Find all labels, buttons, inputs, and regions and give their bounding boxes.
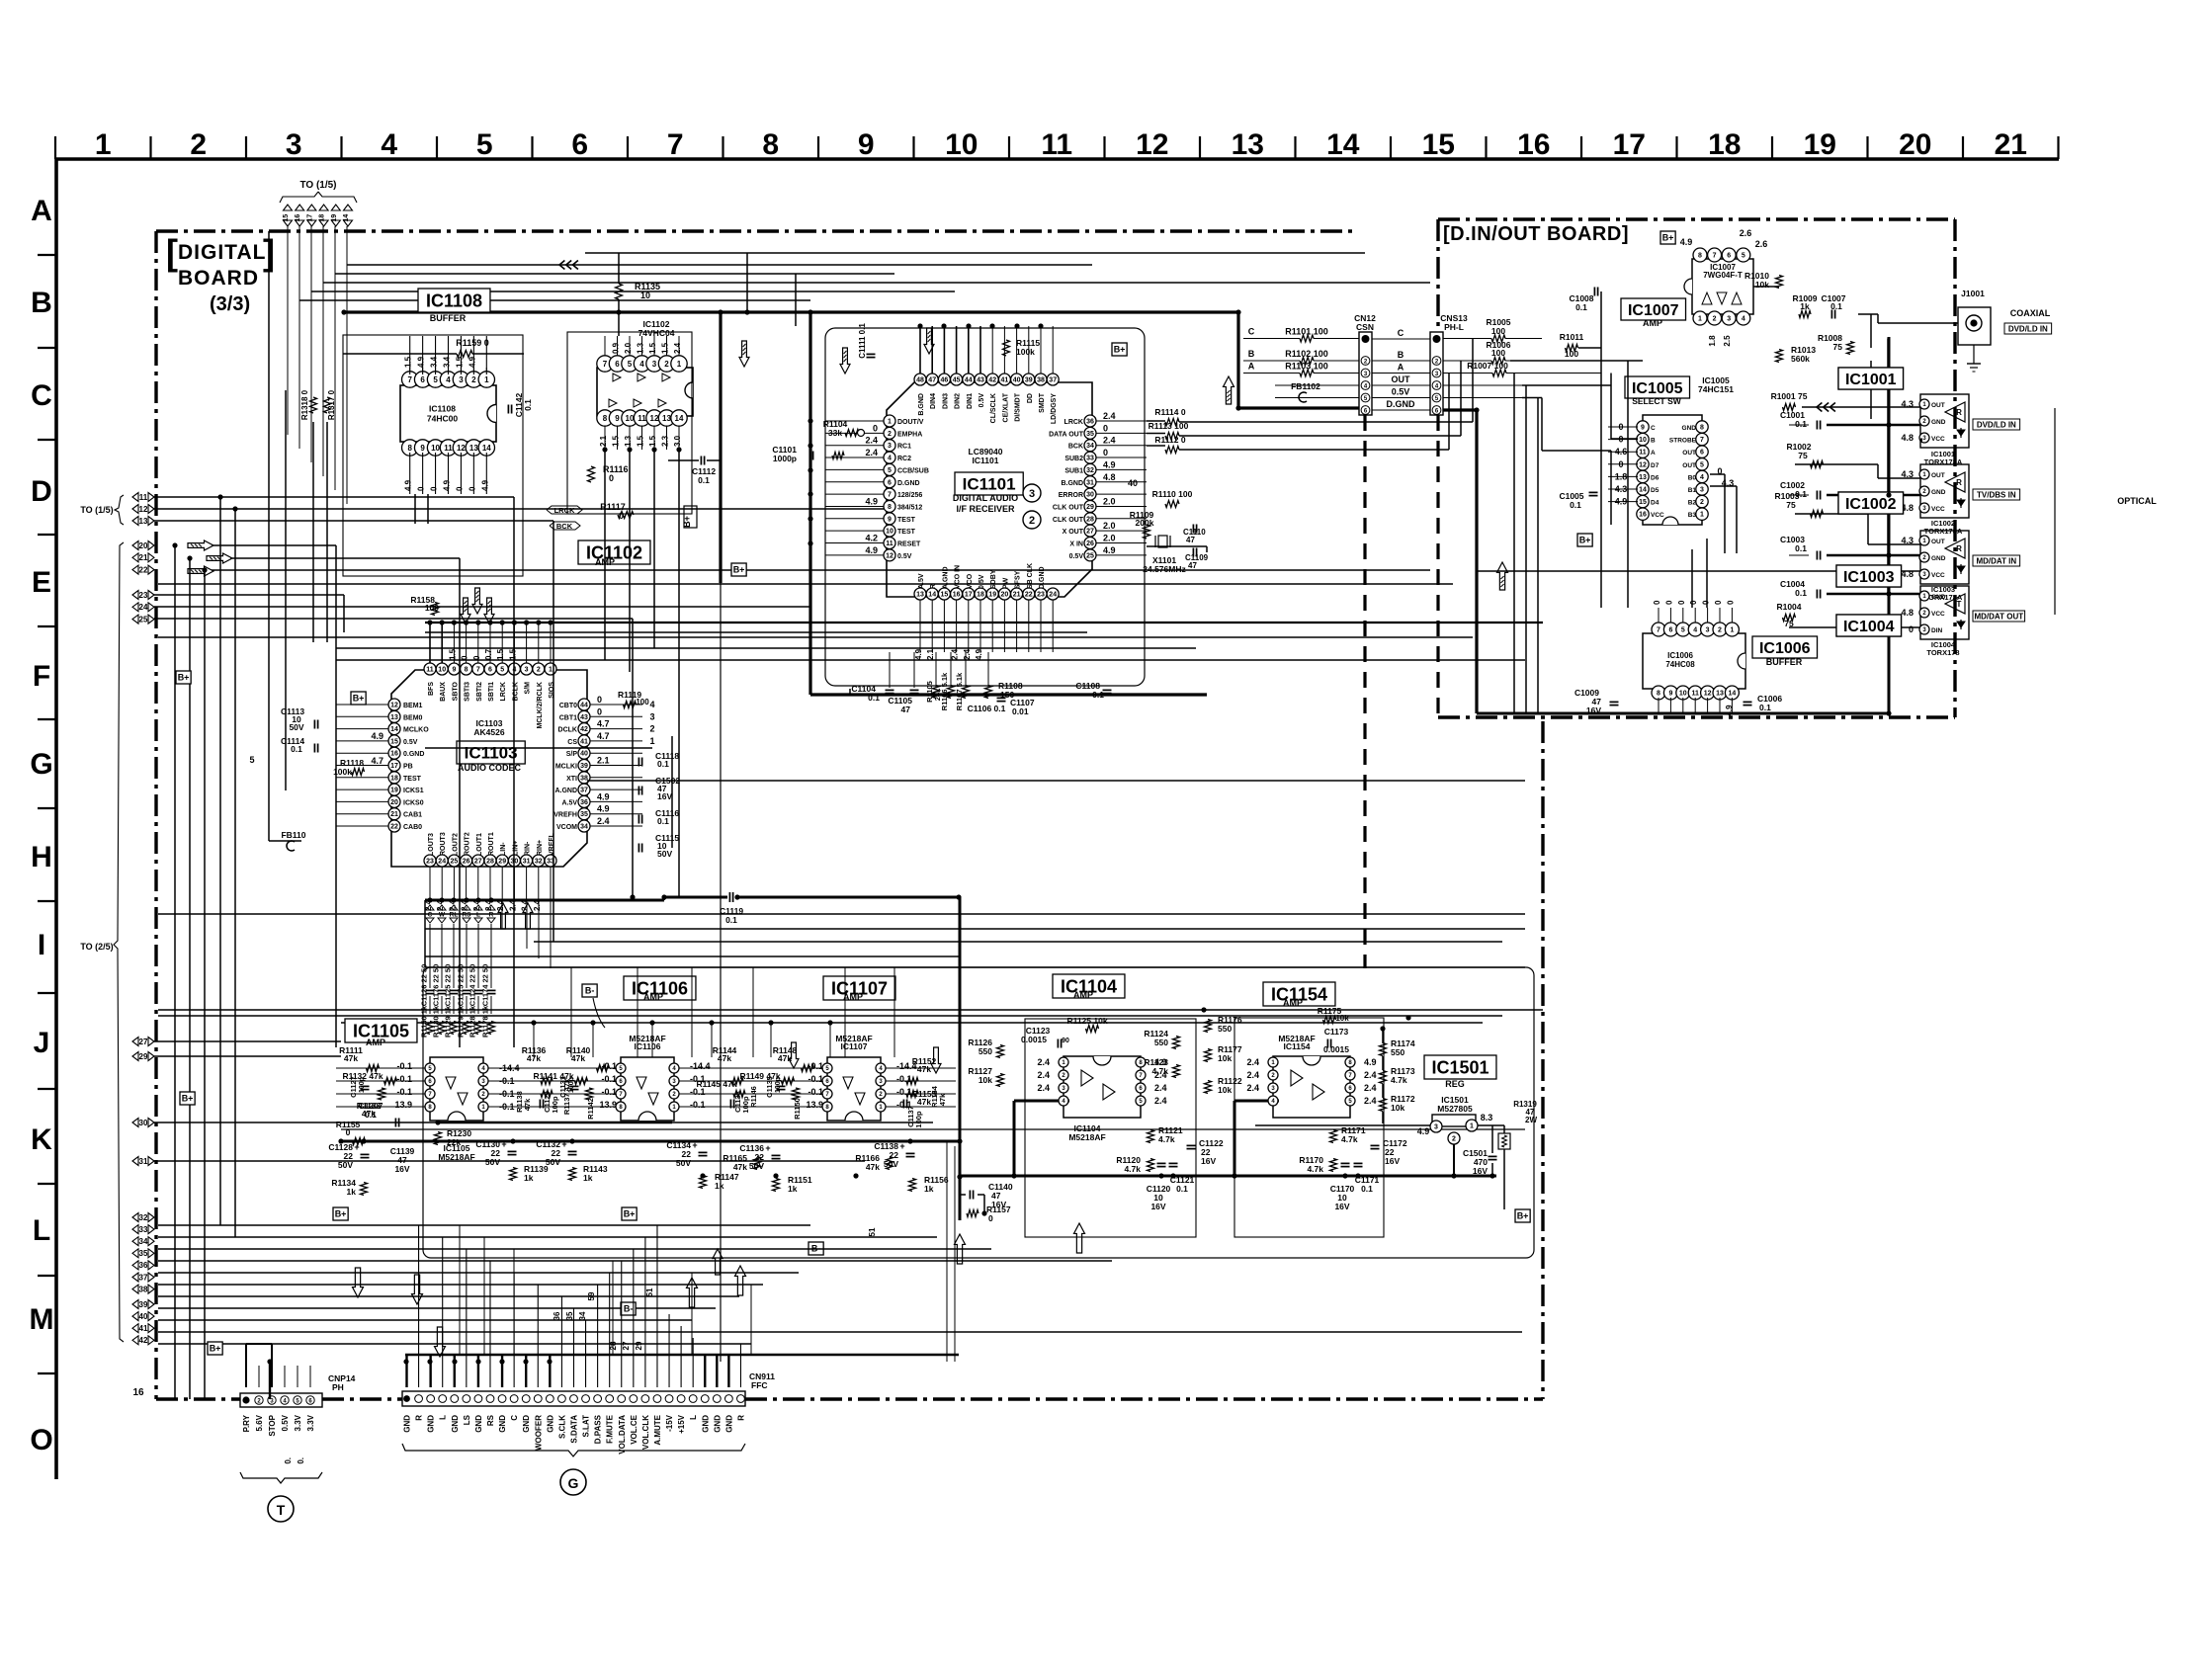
- svg-text:B+: B+: [1517, 1211, 1529, 1221]
- IC1104 chip: [1063, 1056, 1141, 1118]
- R1126 550: [997, 1045, 1004, 1058]
- svg-text:560k: 560k: [1791, 354, 1810, 364]
- svg-text:C1176 22 50: C1176 22 50: [432, 964, 441, 1007]
- svg-text:-15V: -15V: [665, 1414, 674, 1432]
- svg-text:C1174 22 50: C1174 22 50: [481, 964, 490, 1007]
- svg-text:7: 7: [407, 375, 412, 384]
- svg-text:BCK: BCK: [556, 522, 573, 531]
- R1010 10k: [1776, 276, 1783, 289]
- svg-text:FB110: FB110: [281, 830, 305, 840]
- svg-text:2.4: 2.4: [865, 448, 878, 457]
- svg-text:1: 1: [649, 736, 654, 746]
- svg-text:C: C: [1651, 425, 1656, 432]
- IC1006 chip: [1643, 633, 1745, 689]
- svg-text:OUT: OUT: [1931, 472, 1945, 479]
- svg-text:13: 13: [916, 592, 924, 599]
- svg-text:5: 5: [433, 375, 438, 384]
- IC1108 pins down to bus: [414, 494, 416, 524]
- svg-text:L: L: [689, 1415, 698, 1420]
- svg-text:PB: PB: [403, 764, 413, 771]
- svg-text:C: C: [1248, 327, 1255, 337]
- svg-text:A: A: [31, 195, 52, 227]
- svg-text:ICKS0: ICKS0: [403, 799, 424, 806]
- svg-text:1k: 1k: [924, 1184, 934, 1194]
- X1101 crystal: [1158, 536, 1167, 547]
- IC1004 label box overlay: [1836, 615, 1902, 636]
- svg-text:SIOS: SIOS: [549, 682, 555, 699]
- svg-text:R1128 1k: R1128 1k: [468, 1005, 477, 1038]
- svg-text:C1173: C1173: [1324, 1027, 1349, 1037]
- svg-text:1k: 1k: [715, 1181, 724, 1191]
- svg-text:R1129 1k: R1129 1k: [444, 1005, 453, 1038]
- svg-text:R1142: R1142: [586, 1098, 595, 1120]
- IC1101 right pins: [1084, 415, 1096, 427]
- svg-text:COAXIAL: COAXIAL: [2010, 308, 2051, 318]
- svg-text:100k: 100k: [333, 767, 352, 777]
- svg-text:47: 47: [1188, 561, 1197, 570]
- svg-text:47k: 47k: [718, 1053, 731, 1063]
- svg-text:0.1: 0.1: [1176, 1184, 1188, 1194]
- svg-text:47k: 47k: [917, 1064, 931, 1074]
- IC1101 circled 2: [1023, 511, 1041, 529]
- svg-text:47: 47: [928, 377, 936, 384]
- svg-text:3.3V: 3.3V: [306, 1414, 315, 1431]
- svg-text:1: 1: [1700, 512, 1704, 519]
- svg-text:14: 14: [482, 444, 491, 453]
- svg-text:47k: 47k: [938, 1093, 947, 1106]
- svg-text:16: 16: [1639, 512, 1647, 519]
- DINOUT bus verticals: [1600, 348, 1602, 608]
- svg-text:IC1005: IC1005: [1632, 380, 1683, 397]
- IC1101 label box: [955, 472, 1023, 495]
- svg-text:19: 19: [331, 214, 338, 222]
- svg-text:GND: GND: [451, 1415, 460, 1433]
- svg-text:GND: GND: [546, 1415, 554, 1433]
- svg-text:0: 0: [455, 486, 464, 491]
- hatched up arrow near CN12: [1224, 376, 1234, 404]
- svg-text:BFS: BFS: [428, 682, 435, 696]
- svg-text:IC1101: IC1101: [963, 475, 1016, 494]
- C1006 cap: [1744, 701, 1752, 703]
- svg-text:100: 100: [425, 603, 439, 613]
- svg-text:10: 10: [1639, 437, 1647, 444]
- wire bundle top band: [585, 252, 1365, 254]
- svg-text:S/M: S/M: [525, 682, 532, 695]
- svg-text:R1004: R1004: [1776, 602, 1801, 612]
- svg-text:R1011: R1011: [1560, 332, 1584, 342]
- svg-text:51: 51: [645, 1288, 654, 1296]
- svg-text:BUFFER: BUFFER: [1766, 657, 1803, 667]
- svg-text:2.6: 2.6: [1755, 239, 1768, 249]
- svg-text:3: 3: [286, 128, 302, 161]
- R1124 550: [1173, 1037, 1180, 1049]
- svg-text:12: 12: [390, 703, 398, 709]
- svg-text:27: 27: [622, 1341, 631, 1350]
- R1135 resistor: [616, 284, 623, 299]
- svg-text:GND: GND: [713, 1415, 722, 1433]
- svg-text:W: W: [439, 912, 446, 919]
- IC1001 label box: [1838, 368, 1904, 389]
- svg-text:T: T: [277, 1502, 286, 1518]
- IC1102 circuit enclosure: [567, 332, 692, 514]
- svg-text:IC1103: IC1103: [465, 744, 518, 763]
- heavy output wires IC1104 IC1154: [1014, 1100, 1069, 1103]
- svg-text:18: 18: [1708, 128, 1741, 161]
- svg-text:2.4: 2.4: [1037, 1057, 1050, 1067]
- C1122 22 16V: [1187, 1144, 1196, 1146]
- svg-text:ERROR: ERROR: [1059, 492, 1083, 499]
- IC1007 label box: [1621, 298, 1686, 320]
- svg-text:R: R: [1956, 478, 1962, 487]
- top connectors 15-19,14: [284, 205, 293, 210]
- svg-text:3: 3: [1727, 316, 1731, 323]
- wire net above IC1103: [425, 622, 1543, 623]
- svg-text:1.5: 1.5: [404, 356, 413, 368]
- svg-text:6: 6: [888, 479, 892, 486]
- svg-text:0.5V: 0.5V: [1392, 387, 1410, 397]
- svg-text:AMP: AMP: [643, 992, 663, 1002]
- svg-text:4.8: 4.8: [1103, 472, 1116, 482]
- svg-text:-0.1: -0.1: [396, 1074, 412, 1084]
- R1109 200k: [1144, 525, 1150, 539]
- svg-text:9: 9: [1641, 425, 1645, 432]
- IC1003 optical in module: [1920, 531, 1969, 584]
- IC1102 bottom pins: [597, 410, 613, 426]
- svg-text:0.: 0.: [284, 1457, 293, 1464]
- IC1154 chip: [1273, 1056, 1350, 1118]
- svg-text:0: 0: [1653, 600, 1661, 605]
- svg-text:B.GND: B.GND: [1061, 480, 1083, 487]
- svg-text:R1116: R1116: [603, 464, 629, 474]
- svg-text:15: 15: [941, 592, 949, 599]
- svg-text:1k: 1k: [524, 1173, 534, 1183]
- svg-text:VOL.CLK: VOL.CLK: [641, 1415, 650, 1450]
- svg-text:0.7: 0.7: [484, 648, 493, 660]
- IC1108 top pin stubs and values: [409, 336, 411, 374]
- svg-text:4.9: 4.9: [865, 496, 878, 506]
- svg-text:XTI: XTI: [566, 776, 577, 783]
- svg-text:3: 3: [1700, 487, 1704, 494]
- svg-text:2.4: 2.4: [1037, 1083, 1050, 1093]
- svg-text:0.1: 0.1: [1830, 301, 1842, 311]
- svg-text:21: 21: [1013, 592, 1021, 599]
- IC1105 chip: [430, 1057, 483, 1121]
- svg-text:[D.IN/OUT BOARD]: [D.IN/OUT BOARD]: [1443, 223, 1629, 245]
- IC1006 label box: [1752, 636, 1818, 658]
- svg-text:CL/SCLK: CL/SCLK: [990, 393, 997, 423]
- svg-text:13: 13: [390, 714, 398, 721]
- svg-text:29: 29: [1086, 504, 1094, 511]
- R1171 4.7k: [1330, 1130, 1337, 1143]
- svg-text:41: 41: [139, 1324, 148, 1333]
- svg-text:RIN+: RIN+: [537, 840, 544, 856]
- svg-text:2.4: 2.4: [1364, 1096, 1377, 1106]
- B+ box row J left: [180, 1092, 195, 1105]
- svg-text:SB CLK: SB CLK: [1027, 563, 1034, 589]
- wire left drop x272: [269, 840, 301, 842]
- R1150-R1178 resistor column: [427, 1022, 434, 1035]
- IC1102 label box: [578, 540, 650, 564]
- svg-text:1k: 1k: [788, 1184, 798, 1194]
- svg-text:CSN: CSN: [1356, 322, 1374, 332]
- svg-text:IC1108: IC1108: [429, 404, 456, 414]
- svg-text:B+: B+: [182, 1094, 194, 1104]
- svg-text:B+: B+: [353, 694, 365, 704]
- svg-text:A.5V: A.5V: [918, 573, 925, 589]
- svg-text:A.GND: A.GND: [942, 566, 949, 589]
- svg-text:D4: D4: [1651, 500, 1659, 507]
- B+ box left: [176, 671, 191, 684]
- svg-text:IC1004: IC1004: [1843, 619, 1895, 635]
- svg-text:10: 10: [431, 444, 440, 453]
- svg-text:384/512: 384/512: [897, 504, 922, 511]
- svg-text:B-: B-: [624, 1304, 634, 1314]
- svg-text:27: 27: [474, 859, 482, 866]
- amp row wire rows: [336, 1067, 425, 1069]
- svg-text:B+: B+: [682, 516, 692, 528]
- svg-text:LIN-: LIN-: [500, 842, 507, 856]
- svg-text:GND: GND: [1931, 594, 1946, 601]
- svg-text:0: 0: [1103, 448, 1108, 457]
- R1174 550: [1380, 1043, 1387, 1056]
- svg-text:8: 8: [603, 414, 608, 423]
- svg-text:25: 25: [1086, 552, 1094, 559]
- svg-text:I/F RECEIVER: I/F RECEIVER: [956, 504, 1015, 514]
- svg-text:4.7k: 4.7k: [1158, 1134, 1175, 1144]
- svg-text:-0.1: -0.1: [396, 1061, 412, 1071]
- R1139 1k: [510, 1168, 517, 1181]
- svg-text:4.9: 4.9: [371, 731, 383, 741]
- svg-text:17: 17: [1613, 128, 1646, 161]
- svg-text:0.1: 0.1: [1092, 690, 1104, 700]
- svg-text:37: 37: [1049, 377, 1057, 384]
- IC1103 chip body: [391, 670, 587, 867]
- svg-text:14: 14: [390, 726, 398, 733]
- heavy wire y908 with C1119: [664, 896, 727, 899]
- svg-text:0: 0: [1909, 624, 1914, 634]
- svg-text:GND: GND: [724, 1415, 733, 1433]
- R1002 75: [1811, 461, 1824, 468]
- svg-text:6: 6: [1700, 450, 1704, 457]
- svg-text:SBTO: SBTO: [452, 681, 459, 701]
- svg-text:43: 43: [580, 714, 588, 721]
- svg-text:R1103 100: R1103 100: [1285, 362, 1328, 372]
- IC1005 label box: [1625, 376, 1690, 398]
- wire heavy IC1101 bottom: [810, 693, 1207, 696]
- svg-text:31: 31: [523, 859, 531, 866]
- svg-text:PW: PW: [1002, 577, 1009, 589]
- svg-text:IC1001: IC1001: [1845, 372, 1897, 388]
- svg-text:C1106 0.1: C1106 0.1: [968, 704, 1006, 713]
- IC1002 label box: [1838, 492, 1904, 514]
- svg-text:13: 13: [469, 444, 478, 453]
- left connector 30: [132, 1119, 138, 1127]
- left 11-13 wires: [154, 496, 514, 498]
- svg-text:0.: 0.: [297, 1457, 305, 1464]
- digital board right border lower: [1541, 721, 1544, 1399]
- svg-text:16V: 16V: [1473, 1166, 1488, 1176]
- B+ box: [731, 563, 746, 576]
- svg-text:VCC: VCC: [1651, 512, 1664, 519]
- svg-text:100p: 100p: [568, 1077, 575, 1093]
- svg-text:BOARD: BOARD: [178, 267, 259, 290]
- svg-text:B+: B+: [733, 565, 745, 575]
- R1013 560k: [1776, 350, 1783, 363]
- svg-text:6: 6: [1727, 253, 1731, 260]
- svg-text:1: 1: [888, 419, 892, 426]
- svg-text:1.3: 1.3: [637, 342, 645, 354]
- svg-text:4.7: 4.7: [371, 756, 383, 766]
- IC1001 optical in module: [1920, 394, 1969, 448]
- DINOUT left vertical bus: [1513, 374, 1515, 714]
- svg-text:10: 10: [886, 529, 893, 536]
- IC1101 left pins: [884, 415, 895, 427]
- top ruler ticks: [54, 136, 56, 159]
- svg-text:R: R: [1956, 544, 1962, 553]
- DINOUT board border: [1438, 217, 1955, 220]
- rows right of CNS13: [1491, 335, 1505, 342]
- svg-text:REG: REG: [1445, 1079, 1465, 1089]
- svg-text:21: 21: [390, 811, 398, 818]
- svg-text:RS: RS: [486, 1414, 495, 1426]
- svg-text:DIN: DIN: [1931, 627, 1943, 634]
- svg-text:24: 24: [1049, 592, 1057, 599]
- svg-text:R1106 5.1k: R1106 5.1k: [940, 672, 949, 710]
- IC1102 bottom pin long drops: [604, 450, 606, 660]
- svg-text:SBTI3: SBTI3: [465, 682, 471, 702]
- svg-text:4.9: 4.9: [865, 545, 878, 555]
- svg-text:32: 32: [139, 1213, 148, 1222]
- svg-text:4: 4: [888, 456, 892, 462]
- svg-text:9: 9: [1668, 691, 1672, 698]
- svg-text:100k: 100k: [1016, 347, 1035, 357]
- svg-text:0: 0: [1714, 600, 1723, 605]
- R1011 100: [1566, 345, 1578, 352]
- svg-text:VCO: VCO: [967, 573, 974, 589]
- B+ rotated box: [684, 506, 697, 528]
- svg-text:DIGITAL AUDIO: DIGITAL AUDIO: [953, 493, 1018, 503]
- down arrows IC1103 top: [461, 598, 470, 623]
- svg-text:15: 15: [283, 214, 290, 222]
- IC1101 enclosure rounded rect: [825, 328, 1145, 686]
- svg-text:DI/SMDT: DI/SMDT: [1015, 392, 1022, 422]
- svg-text:R1179 1k: R1179 1k: [457, 1005, 466, 1038]
- B+ box DINOUT: [1660, 231, 1675, 244]
- svg-text:2: 2: [1718, 627, 1722, 634]
- svg-text:550: 550: [1154, 1038, 1168, 1047]
- R1173 4.7k: [1380, 1071, 1387, 1084]
- svg-text:16: 16: [953, 592, 961, 599]
- wire heavy vertical x729: [719, 312, 722, 583]
- left connectors 20-25: [132, 541, 138, 550]
- svg-text:LOUT2: LOUT2: [452, 833, 459, 856]
- IC1108 label box: [418, 289, 490, 312]
- svg-text:8: 8: [888, 504, 892, 511]
- svg-text:0.1: 0.1: [698, 475, 710, 485]
- svg-text:34: 34: [578, 1311, 587, 1320]
- svg-text:2.5: 2.5: [1723, 335, 1732, 347]
- IC1101 circled 3: [1023, 484, 1041, 502]
- svg-text:OUT: OUT: [1392, 374, 1411, 384]
- digital board left border: [154, 231, 157, 1399]
- svg-text:5: 5: [249, 755, 254, 765]
- svg-text:21: 21: [139, 553, 148, 562]
- svg-text:20: 20: [390, 799, 398, 806]
- svg-text:50V: 50V: [485, 1157, 500, 1167]
- svg-text:+: +: [354, 1142, 359, 1152]
- svg-text:2.4: 2.4: [951, 648, 960, 660]
- svg-text:TEST: TEST: [897, 517, 916, 524]
- svg-text:47: 47: [1186, 536, 1195, 544]
- svg-text:12: 12: [1704, 691, 1712, 698]
- svg-text:MCLKO: MCLKO: [403, 727, 429, 734]
- svg-text:LRCK: LRCK: [1064, 419, 1083, 426]
- IC1005 chip: [1643, 415, 1702, 525]
- svg-text:36: 36: [580, 799, 588, 806]
- svg-text:42: 42: [139, 1336, 148, 1345]
- svg-text:DD: DD: [1027, 393, 1034, 403]
- X IN wire: [1147, 545, 1207, 547]
- svg-text:47: 47: [901, 705, 911, 714]
- vertical bus left: [174, 545, 176, 1399]
- svg-text:100p: 100p: [775, 1077, 782, 1093]
- svg-text:1.8: 1.8: [1708, 335, 1717, 347]
- svg-text:-0.1: -0.1: [601, 1061, 617, 1071]
- C1101 1000p: [808, 452, 810, 460]
- wire heavy vertical x820: [808, 312, 811, 695]
- C1109 cap: [1192, 548, 1194, 557]
- svg-text:75: 75: [1798, 451, 1808, 460]
- svg-text:30: 30: [139, 1119, 148, 1127]
- svg-text:2: 2: [1700, 499, 1704, 506]
- svg-text:21: 21: [1995, 128, 2027, 161]
- left ruler ticks: [38, 254, 56, 256]
- svg-text:CLK OUT: CLK OUT: [1053, 517, 1084, 524]
- svg-text:AUDIO CODEC: AUDIO CODEC: [458, 763, 522, 773]
- svg-text:24.576MHz: 24.576MHz: [1143, 564, 1185, 574]
- svg-text:46: 46: [941, 377, 949, 384]
- svg-text:IC1007: IC1007: [1628, 302, 1679, 319]
- svg-text:RL: RL: [450, 912, 459, 919]
- svg-text:10k: 10k: [1218, 1085, 1232, 1095]
- junction dots: [718, 309, 723, 314]
- svg-text:C: C: [428, 912, 433, 919]
- svg-text:GND: GND: [701, 1415, 710, 1433]
- svg-text:10: 10: [945, 128, 978, 161]
- svg-text:0.1: 0.1: [725, 915, 737, 925]
- IC1501 wires: [1255, 1124, 1430, 1126]
- svg-text:R: R: [415, 1415, 424, 1421]
- svg-text:16V: 16V: [1385, 1156, 1400, 1166]
- svg-text:VOL.CE: VOL.CE: [630, 1414, 638, 1444]
- IC1106 chip: [621, 1057, 674, 1121]
- svg-text:TORX178: TORX178: [1926, 648, 1959, 657]
- svg-text:5: 5: [1742, 253, 1745, 260]
- svg-text:27: 27: [1086, 529, 1094, 536]
- svg-text:2: 2: [649, 724, 654, 734]
- svg-text:6: 6: [420, 375, 425, 384]
- svg-text:0.5V: 0.5V: [978, 393, 985, 408]
- svg-text:J: J: [34, 1027, 50, 1059]
- wire 31: [154, 1160, 865, 1162]
- svg-text:0.1: 0.1: [1759, 703, 1771, 712]
- svg-text:100p: 100p: [914, 1111, 923, 1128]
- C1009 cap: [1610, 701, 1619, 703]
- svg-text:36: 36: [553, 1311, 561, 1320]
- svg-text:100: 100: [1565, 349, 1578, 359]
- svg-text:5: 5: [1681, 627, 1685, 634]
- CN911 pin stubs: [405, 1355, 407, 1387]
